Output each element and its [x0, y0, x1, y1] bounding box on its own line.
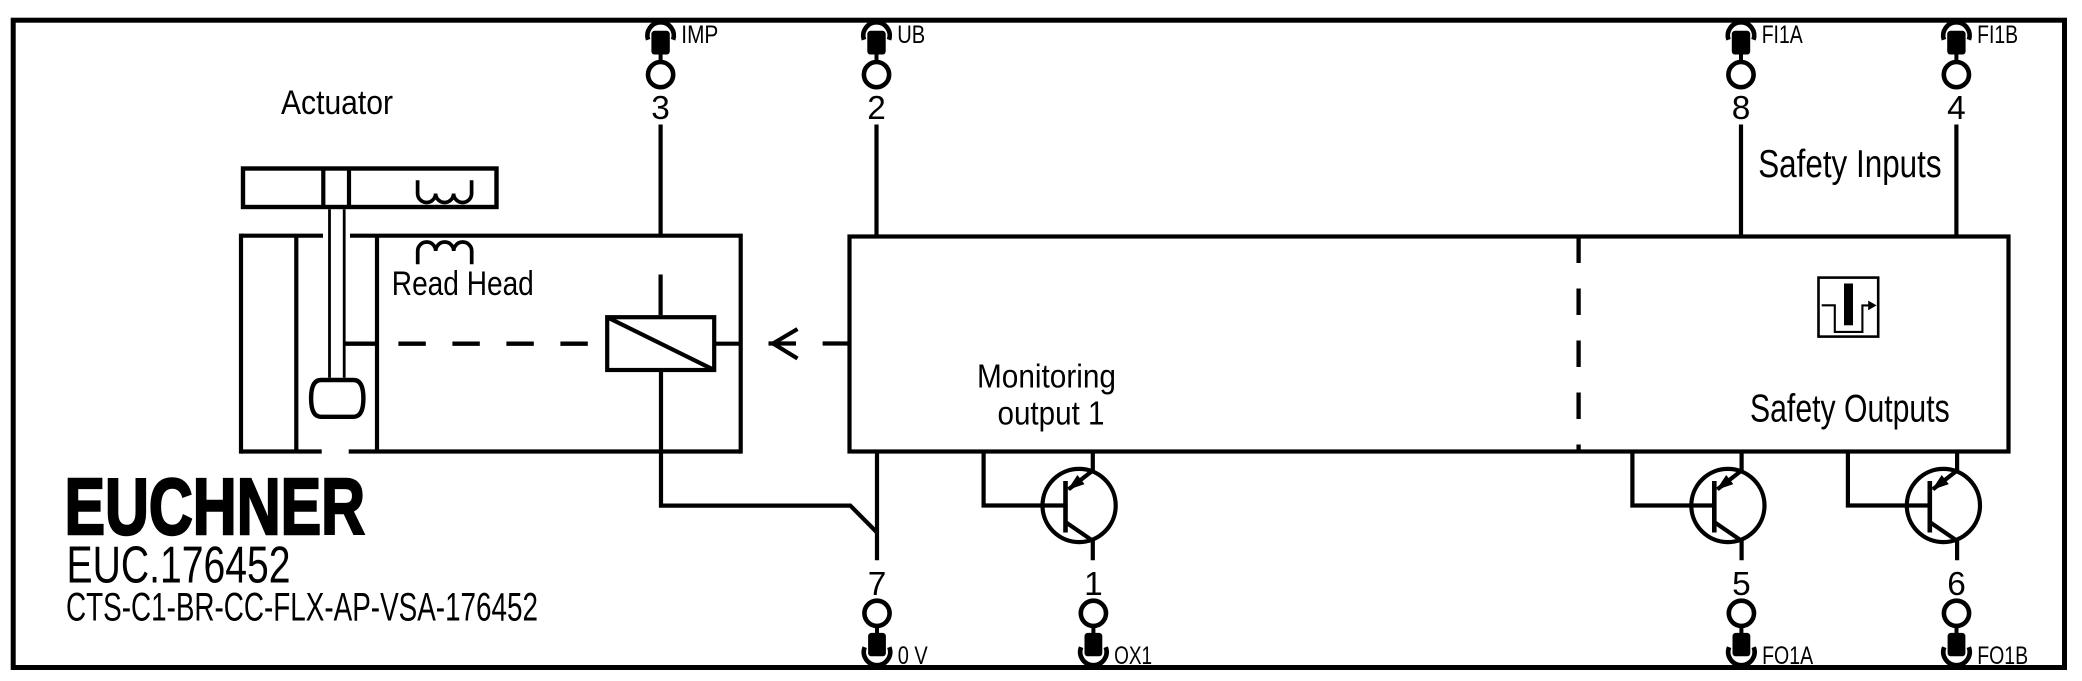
read head coil (inductor) — [418, 242, 472, 264]
wire terminal 8 to main box — [1739, 125, 1743, 237]
dashed coupling line — [398, 342, 609, 346]
terminal 5 (FO1A) bottom clamp symbol — [1728, 601, 1754, 665]
actuator bolt shaft right line — [343, 209, 346, 377]
wire terminal 3 to read head box — [658, 125, 662, 236]
terminal 1 (OX1) bottom clamp symbol — [1080, 601, 1106, 665]
svg-text:FI1A: FI1A — [1762, 22, 1803, 49]
transistor Q2 (safety output FO1A) — [1632, 452, 1764, 561]
read head box bottom edge (gap under bolt) — [241, 449, 741, 453]
svg-text:Safety Inputs: Safety Inputs — [1758, 143, 1941, 186]
actuator coil (inductor in bar) — [418, 180, 472, 202]
actuator bar cell divider right — [347, 169, 351, 208]
actuator bar — [243, 169, 497, 208]
terminal 2 (UB) top clamp symbol — [863, 22, 889, 87]
svg-text:Actuator: Actuator — [281, 84, 393, 122]
signal arrow (left-pointing) — [769, 329, 798, 359]
svg-text:FO1B: FO1B — [1977, 643, 2028, 670]
svg-text:output 1: output 1 — [998, 395, 1105, 433]
terminal 4 (FI1B) top clamp symbol — [1943, 22, 1969, 87]
actuator bolt shaft left line — [328, 209, 331, 377]
read head box top edge (gap for bolt) — [241, 234, 741, 238]
terminal 7 (0 V) bottom clamp symbol — [864, 601, 890, 665]
relay K1 (box with diagonal) — [607, 317, 714, 370]
read head box left edge — [239, 234, 243, 454]
wire relay right lead — [714, 342, 741, 346]
svg-text:2: 2 — [867, 90, 886, 127]
svg-text:0 V: 0 V — [898, 643, 928, 670]
svg-text:1: 1 — [1084, 566, 1103, 603]
read head inner wall right — [375, 236, 379, 452]
svg-text:4: 4 — [1947, 90, 1966, 127]
svg-text:5: 5 — [1732, 566, 1751, 603]
wire bolt to wall (solid) — [344, 342, 377, 346]
pulse/OSSD icon U1 — [1819, 278, 1879, 337]
wire main box to terminal 7 — [875, 452, 879, 561]
svg-text:CTS-C1-BR-CC-FLX-AP-VSA-176452: CTS-C1-BR-CC-FLX-AP-VSA-176452 — [66, 586, 538, 630]
transistor Q3 (safety output FO1B) — [1848, 452, 1980, 561]
actuator bolt head — [311, 380, 363, 417]
transistor Q1 (monitoring output OX1) — [984, 452, 1116, 561]
read head inner wall left — [294, 236, 298, 452]
terminal 8 (FI1A) top clamp symbol — [1728, 22, 1754, 87]
terminal 3 (IMP) top clamp symbol — [647, 22, 673, 87]
svg-text:Monitoring: Monitoring — [977, 358, 1116, 396]
svg-text:Read Head: Read Head — [392, 265, 534, 303]
read head box right edge — [739, 234, 743, 454]
svg-text:FO1A: FO1A — [1762, 643, 1813, 670]
svg-text:FI1B: FI1B — [1977, 22, 2018, 49]
wire arrow to main box — [823, 341, 850, 345]
dashed divider — [1576, 237, 1580, 450]
svg-text:8: 8 — [1732, 90, 1751, 127]
wire terminal 4 to main box — [1954, 125, 1958, 237]
svg-text:6: 6 — [1947, 566, 1966, 603]
main evaluation unit box — [850, 237, 2009, 452]
svg-text:3: 3 — [651, 90, 670, 127]
wire relay to 0V jog — [661, 371, 877, 533]
svg-text:IMP: IMP — [681, 22, 718, 49]
wire terminal 2 to main box — [874, 125, 878, 237]
svg-text:Safety Outputs: Safety Outputs — [1750, 388, 1950, 431]
svg-text:UB: UB — [897, 22, 925, 49]
wire relay top lead — [658, 275, 662, 316]
svg-text:OX1: OX1 — [1114, 643, 1152, 670]
svg-text:7: 7 — [868, 566, 887, 603]
actuator bar cell divider left — [321, 169, 325, 208]
terminal 6 (FO1B) bottom clamp symbol — [1943, 601, 1969, 665]
